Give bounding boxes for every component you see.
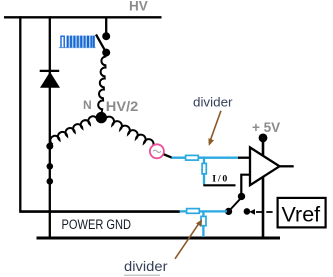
divider lower cyan line — [180, 210, 228, 212]
op-amp U1 — [250, 147, 280, 185]
svg-text:HV/2: HV/2 — [106, 99, 139, 114]
svg-text:I/0: I/0 — [212, 173, 227, 184]
I/0 bottom line — [203, 184, 235, 186]
PWM signal icon — [59, 36, 96, 48]
underline divider bottom — [124, 274, 160, 276]
inductor right phase arm — [105, 117, 154, 148]
AC source phase terminal — [150, 144, 164, 158]
divider lower vertical cyan wire — [202, 211, 204, 237]
wire op-amp output — [279, 165, 294, 167]
wire bottom jog line A — [19, 210, 180, 213]
resistor divider top vertical — [202, 163, 206, 174]
svg-text:HV: HV — [129, 0, 148, 14]
+5V dot — [259, 134, 268, 143]
inductor left phase arm — [50, 116, 97, 145]
junction dot left arm — [46, 143, 53, 150]
svg-text:Vref: Vref — [282, 203, 321, 227]
svg-text:POWER GND: POWER GND — [62, 217, 132, 232]
switch S1 blade — [96, 35, 106, 53]
node dot Vref arrow — [244, 208, 251, 215]
svg-text:N: N — [83, 98, 92, 112]
Vref dashed arrow — [249, 209, 277, 215]
arrow divider bottom — [175, 219, 202, 258]
wire switch branch from rail — [105, 17, 107, 33]
switch S2 blade — [229, 198, 242, 212]
resistor divider top horizontal — [186, 155, 199, 160]
wire black to op-amp + input — [238, 157, 251, 159]
wire HV top rail — [4, 16, 162, 18]
wire inverting input — [241, 175, 250, 195]
switch S1 top contact dot — [102, 32, 110, 40]
divider top cyan line — [172, 157, 239, 159]
wire op-amp power vertical — [262, 138, 265, 238]
svg-text:+ 5V: + 5V — [252, 120, 280, 135]
wire second vertical bus — [49, 16, 51, 238]
divider top vertical cyan wire — [203, 158, 205, 185]
switch S2 pivot dot — [225, 208, 232, 215]
svg-text:divider: divider — [124, 258, 168, 274]
junction dot — [47, 178, 54, 185]
wire left vertical bus — [19, 16, 21, 211]
Vref box — [278, 198, 326, 228]
wire stub from source — [164, 154, 172, 157]
arrow divider top — [208, 111, 221, 146]
wire POWER GND bus — [37, 237, 281, 240]
resistor divider lower horizontal — [187, 209, 200, 214]
diode D1 — [40, 71, 60, 88]
junction dot — [47, 163, 54, 170]
switch S2 contact dot — [238, 193, 245, 200]
svg-text:divider: divider — [193, 95, 233, 110]
switch S1 pivot dot — [102, 49, 110, 57]
inductor L1 vertical winding — [98, 56, 106, 113]
resistor divider lower vertical — [201, 216, 206, 225]
node N dot — [96, 112, 107, 123]
